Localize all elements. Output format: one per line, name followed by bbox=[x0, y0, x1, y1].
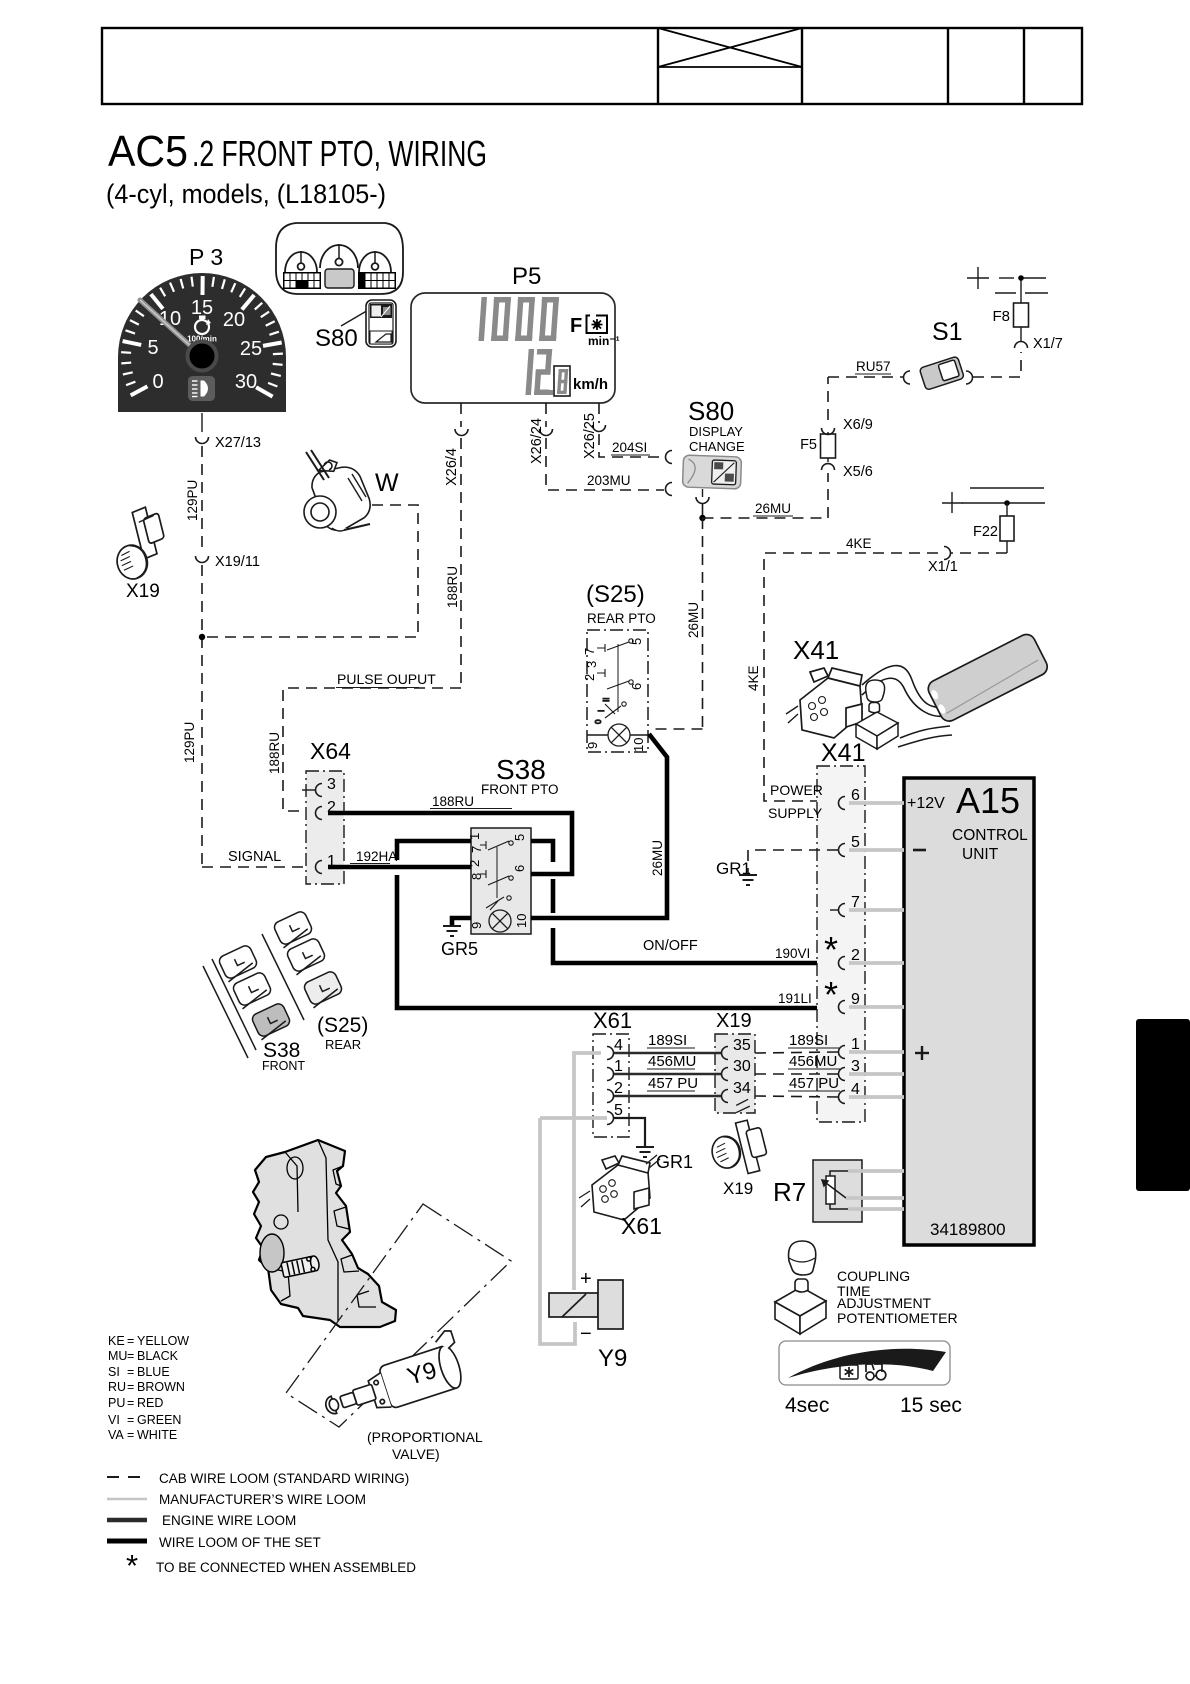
proportional valve Y9 pictorial bbox=[315, 1329, 468, 1428]
svg-text:X19: X19 bbox=[126, 581, 160, 602]
svg-text:190VI: 190VI bbox=[775, 946, 810, 961]
svg-text:5: 5 bbox=[614, 1102, 623, 1119]
wire S1 to X1/7 (cab loom) bbox=[973, 352, 1021, 377]
svg-text:30: 30 bbox=[235, 371, 257, 393]
svg-text:BROWN: BROWN bbox=[137, 1380, 185, 1394]
svg-text:GREEN: GREEN bbox=[137, 1413, 181, 1427]
wire GR1 at X61 pin5 bbox=[614, 1118, 645, 1146]
X61 pin 5 bbox=[607, 1112, 614, 1125]
wire 26MU dashed into S25 pin10 bbox=[650, 728, 703, 730]
svg-text:X19/11: X19/11 bbox=[215, 554, 260, 570]
wire W sender loop (cab loom) bbox=[202, 505, 418, 637]
svg-text:4: 4 bbox=[614, 1037, 623, 1054]
X41 pin 4 bbox=[839, 1091, 846, 1104]
connector X1/7 bbox=[1015, 342, 1028, 349]
svg-text:457 PU: 457 PU bbox=[648, 1075, 698, 1092]
svg-text:3: 3 bbox=[584, 661, 599, 668]
svg-text:456MU: 456MU bbox=[789, 1053, 837, 1070]
svg-text:189SI: 189SI bbox=[648, 1032, 687, 1049]
svg-text:P5: P5 bbox=[512, 263, 541, 290]
svg-text:4KE: 4KE bbox=[846, 536, 872, 551]
svg-text:X19: X19 bbox=[716, 1010, 752, 1032]
svg-text:30: 30 bbox=[733, 1058, 751, 1075]
wire 456MU (engine loom) bbox=[614, 1073, 722, 1076]
wire X5/6 to 26MU (cab loom) bbox=[827, 473, 829, 518]
S38 lamp bbox=[489, 910, 511, 932]
svg-text:204SI: 204SI bbox=[612, 440, 647, 455]
svg-text:4sec: 4sec bbox=[785, 1394, 829, 1417]
svg-text:X61: X61 bbox=[593, 1008, 632, 1033]
svg-text:R7: R7 bbox=[773, 1177, 806, 1207]
fuse F5 bbox=[827, 432, 829, 462]
wire 26MU vertical to S25 (cab loom) bbox=[702, 518, 704, 729]
fuse F8 bbox=[1020, 295, 1022, 341]
X41 potentiometer knob pictorial bbox=[856, 680, 898, 749]
svg-text:POTENTIOMETER: POTENTIOMETER bbox=[837, 1310, 958, 1326]
svg-text:ENGINE WIRE LOOM: ENGINE WIRE LOOM bbox=[162, 1513, 296, 1528]
wire X6/9 up to RU57 (cab loom) bbox=[827, 377, 829, 420]
connector X61 pictorial bbox=[579, 1155, 660, 1220]
svg-text:REAR PTO: REAR PTO bbox=[587, 611, 656, 626]
junction W/129PU bbox=[199, 634, 205, 640]
svg-text:WIRE LOOM OF THE SET: WIRE LOOM OF THE SET bbox=[159, 1535, 321, 1550]
sender W pictorial bbox=[304, 450, 376, 535]
X41 pin7 stub bbox=[830, 909, 838, 911]
svg-text:X1/7: X1/7 bbox=[1033, 336, 1063, 352]
svg-text:GR1: GR1 bbox=[656, 1152, 693, 1172]
control unit A15 box bbox=[904, 778, 1034, 1245]
svg-text:CHANGE: CHANGE bbox=[689, 439, 745, 454]
wire RU57 (cab loom) bbox=[828, 376, 903, 378]
svg-text:=: = bbox=[127, 1334, 134, 1348]
line type legend bbox=[107, 1471, 416, 1583]
svg-text:188RU: 188RU bbox=[267, 732, 282, 774]
connector X41 block bbox=[817, 766, 865, 1122]
svg-text:X26/4: X26/4 bbox=[444, 448, 460, 486]
X41 module (A15 pictorial) bbox=[925, 631, 1050, 724]
connector X27/13 bbox=[196, 437, 209, 444]
svg-text:7: 7 bbox=[582, 648, 597, 655]
svg-text:(S25): (S25) bbox=[317, 1014, 368, 1037]
wire 26MU (set) S25 pin10 to S38 pin10 bbox=[531, 734, 667, 918]
svg-text:P 3: P 3 bbox=[189, 244, 223, 270]
switch S80 DISPLAY CHANGE body bbox=[682, 455, 741, 489]
wire S38 pin5 stub (set) bbox=[531, 841, 553, 862]
wire Y9 - (manufacturer) bbox=[540, 1118, 575, 1344]
title block crossed cell bbox=[658, 28, 802, 67]
svg-text:A15: A15 bbox=[956, 780, 1020, 821]
svg-text:S80: S80 bbox=[315, 325, 358, 352]
svg-text:+12V: +12V bbox=[907, 795, 945, 812]
svg-text:X27/13: X27/13 bbox=[215, 435, 261, 451]
svg-text:CONTROL: CONTROL bbox=[952, 827, 1028, 844]
wire 26MU horizontal to F5 branch (cab loom) bbox=[703, 517, 829, 519]
X64 pin 2 bbox=[316, 807, 323, 820]
svg-text:188RU: 188RU bbox=[432, 794, 474, 809]
X41 pin 9 bbox=[839, 1001, 846, 1014]
wire X26/24 (cab loom) bbox=[545, 403, 547, 427]
svg-text:3: 3 bbox=[327, 776, 336, 793]
svg-text:RU57: RU57 bbox=[856, 359, 891, 374]
X41 pin 3 bbox=[839, 1068, 846, 1081]
adjustment knob pictorial bbox=[775, 1241, 826, 1334]
connector below S80 bbox=[696, 497, 709, 504]
svg-text:26MU: 26MU bbox=[650, 840, 665, 876]
rocker switch panel pictorial bbox=[203, 910, 344, 1058]
svg-text:RED: RED bbox=[137, 1396, 163, 1410]
switch S1 body bbox=[919, 356, 964, 390]
svg-text:5: 5 bbox=[147, 337, 158, 359]
connector at S1 right bbox=[966, 371, 973, 384]
svg-text:II: II bbox=[602, 698, 611, 702]
switch S80 (panel icon) bbox=[366, 300, 396, 347]
svg-text:456MU: 456MU bbox=[648, 1053, 696, 1070]
svg-text:FRONT PTO: FRONT PTO bbox=[481, 782, 559, 797]
wire X26/25 (cab loom) bbox=[598, 403, 600, 423]
connector at S1 left bbox=[904, 371, 911, 384]
svg-text:X6/9: X6/9 bbox=[843, 417, 873, 433]
title block frame bbox=[102, 28, 1082, 104]
connector X19/11 bbox=[196, 556, 209, 563]
X41 pin 1 bbox=[839, 1046, 846, 1059]
svg-text:km/h: km/h bbox=[573, 376, 608, 393]
X41 pin 7 bbox=[839, 904, 846, 917]
svg-text:AC5: AC5 bbox=[108, 127, 188, 176]
svg-text:1: 1 bbox=[614, 1058, 623, 1075]
svg-text:25: 25 bbox=[240, 338, 262, 360]
wire GR1 at X41 pin5 (cab loom) bbox=[748, 850, 838, 874]
svg-text:SI: SI bbox=[108, 1365, 120, 1379]
leader line (dash-dot diamond) bbox=[286, 1204, 511, 1427]
X41 pin 5 bbox=[839, 844, 846, 857]
svg-text:VA: VA bbox=[108, 1428, 124, 1442]
wire SIGNAL to X64 (cab loom) bbox=[202, 866, 308, 868]
svg-text:34189800: 34189800 bbox=[930, 1220, 1006, 1239]
S25 lamp bbox=[608, 724, 630, 746]
connector X6/9 bbox=[822, 428, 835, 434]
switch S38 block bbox=[471, 828, 531, 934]
X19 pin 35 bbox=[722, 1047, 728, 1060]
connector block X64 bbox=[306, 771, 344, 884]
svg-text:7: 7 bbox=[469, 846, 484, 853]
wire PULSE OUPUT (cab loom) bbox=[283, 688, 461, 811]
scale PTO icon bbox=[840, 1365, 858, 1379]
svg-text:9: 9 bbox=[469, 922, 484, 929]
connector X26/25 bbox=[593, 425, 606, 432]
S25 internal contacts bbox=[594, 639, 633, 724]
connector X19 pictorial (instrument) bbox=[702, 1098, 771, 1181]
X41 harness cable bbox=[862, 666, 950, 708]
svg-text:MANUFACTURER’S WIRE LOOM: MANUFACTURER’S WIRE LOOM bbox=[159, 1492, 366, 1507]
wire 204SI (cab loom) bbox=[599, 434, 664, 457]
switch S80 (panel icon) leader bbox=[341, 309, 370, 326]
svg-text:−: − bbox=[580, 1323, 592, 1345]
svg-text:=: = bbox=[127, 1428, 134, 1442]
wire 26MU from S80 down (cab loom) bbox=[702, 504, 704, 518]
wire from P3 to X27/13 bbox=[201, 413, 203, 432]
wire 188RU vertical (cab loom) bbox=[460, 438, 462, 688]
battery + (second) bbox=[942, 488, 1045, 513]
wire X26/4 (cab loom) bbox=[460, 403, 462, 427]
coupling time scale bbox=[779, 1341, 950, 1385]
front PTO gearbox pictorial bbox=[253, 1140, 396, 1327]
instrument cluster icon bbox=[276, 223, 403, 294]
svg-text:34: 34 bbox=[733, 1080, 751, 1097]
connector X19 pictorial (cab side) bbox=[106, 505, 173, 583]
svg-text:PU: PU bbox=[108, 1396, 125, 1410]
switch (S25) block bbox=[587, 630, 648, 752]
svg-text:X41: X41 bbox=[821, 739, 865, 767]
svg-text:188RU: 188RU bbox=[445, 566, 460, 608]
wire 129PU (cab loom) bbox=[201, 446, 203, 552]
X41 pin 6 bbox=[839, 797, 846, 810]
svg-text:457 PU: 457 PU bbox=[789, 1075, 839, 1092]
wire 457 PU X19 to X41 (cab loom) bbox=[755, 1096, 838, 1097]
svg-text:=: = bbox=[127, 1413, 134, 1427]
svg-text:X26/25: X26/25 bbox=[582, 413, 598, 459]
svg-text:X61: X61 bbox=[621, 1213, 662, 1239]
svg-text:W: W bbox=[375, 469, 399, 497]
svg-text:192HA: 192HA bbox=[356, 849, 397, 864]
svg-text:S80: S80 bbox=[688, 396, 734, 426]
svg-text:RU: RU bbox=[108, 1380, 126, 1394]
svg-text:WHITE: WHITE bbox=[137, 1428, 177, 1442]
svg-text:5: 5 bbox=[512, 834, 527, 841]
svg-text:FRONT: FRONT bbox=[262, 1059, 305, 1073]
X41 pin 2 bbox=[839, 957, 846, 970]
svg-text:S1: S1 bbox=[932, 318, 963, 346]
wire 4KE (cab loom) bbox=[951, 552, 1007, 554]
display P5 bbox=[411, 293, 615, 403]
svg-text:191LI: 191LI bbox=[778, 991, 812, 1006]
svg-text:35: 35 bbox=[733, 1037, 751, 1054]
connector X1/1 bbox=[944, 547, 951, 560]
wire to X61 pin5 (manufacturer) bbox=[540, 1116, 607, 1120]
svg-text:F8: F8 bbox=[992, 308, 1010, 325]
wire Y9 + (manufacturer) bbox=[574, 1053, 601, 1290]
svg-text:(PROPORTIONAL: (PROPORTIONAL bbox=[367, 1429, 483, 1445]
svg-text:F: F bbox=[570, 315, 582, 337]
svg-text:DISPLAY: DISPLAY bbox=[689, 424, 743, 439]
svg-text:POWER: POWER bbox=[770, 782, 823, 798]
svg-text:ON/OFF: ON/OFF bbox=[643, 938, 698, 954]
svg-text:X26/24: X26/24 bbox=[529, 418, 545, 464]
svg-text:2: 2 bbox=[614, 1080, 623, 1097]
svg-text:4KE: 4KE bbox=[746, 665, 761, 691]
svg-text:ADJUSTMENT: ADJUSTMENT bbox=[837, 1295, 932, 1311]
svg-text:(S25): (S25) bbox=[586, 581, 645, 608]
svg-text:0: 0 bbox=[152, 371, 163, 393]
svg-text:2: 2 bbox=[582, 674, 597, 681]
wire 192HA (set) X64 pin1 to S38 pin2 bbox=[328, 865, 471, 870]
svg-text:X5/6: X5/6 bbox=[843, 464, 873, 480]
connector block X19 bbox=[715, 1034, 755, 1113]
connector X41 pictorial bbox=[786, 668, 862, 738]
svg-text:TO BE CONNECTED WHEN ASSEMBLE: TO BE CONNECTED WHEN ASSEMBLED bbox=[156, 1560, 416, 1575]
wire 203MU (cab loom) bbox=[546, 438, 664, 490]
svg-text:9: 9 bbox=[585, 742, 600, 749]
svg-text:KE: KE bbox=[108, 1334, 125, 1348]
svg-text:=: = bbox=[127, 1380, 134, 1394]
svg-text:X19: X19 bbox=[723, 1179, 753, 1198]
svg-text:6: 6 bbox=[512, 865, 527, 872]
svg-text:26MU: 26MU bbox=[755, 501, 791, 516]
svg-text:SUPPLY: SUPPLY bbox=[768, 805, 823, 821]
S38 internal contacts bbox=[480, 841, 513, 910]
colour legend bbox=[108, 1334, 189, 1442]
wire 457 PU (engine loom) bbox=[614, 1095, 722, 1098]
wire 129PU lower (cab loom) bbox=[201, 565, 203, 867]
wire 189SI X19 to X41 (cab loom) bbox=[755, 1052, 838, 1053]
svg-text:YELLOW: YELLOW bbox=[137, 1334, 189, 1348]
svg-text:=: = bbox=[127, 1349, 134, 1363]
ground GR5 at S38 pin9 bbox=[452, 918, 471, 925]
scale tractor icon bbox=[866, 1364, 886, 1380]
wire 456MU X19 to X41 (cab loom) bbox=[755, 1073, 838, 1075]
svg-text:MU: MU bbox=[108, 1349, 127, 1363]
svg-text:*: * bbox=[126, 1548, 138, 1583]
svg-text:X1/1: X1/1 bbox=[928, 559, 958, 575]
connector at S80 lower (203MU) bbox=[666, 483, 672, 496]
svg-text:20: 20 bbox=[223, 309, 245, 331]
battery + (top) bbox=[967, 267, 1048, 295]
connector block X61 bbox=[593, 1034, 629, 1137]
svg-text:10: 10 bbox=[514, 914, 529, 928]
reference tab bbox=[1136, 1019, 1190, 1191]
svg-text:I: I bbox=[597, 710, 606, 712]
svg-text:VALVE): VALVE) bbox=[392, 1446, 440, 1462]
svg-text:+: + bbox=[580, 1268, 592, 1290]
connector at S80 upper (204SI) bbox=[666, 451, 672, 464]
connector X26/4 bbox=[455, 429, 468, 436]
X19 pin 34 bbox=[722, 1090, 728, 1103]
X61 pin 1 bbox=[607, 1068, 614, 1081]
junction S80/26MU bbox=[699, 515, 705, 521]
svg-text:SIGNAL: SIGNAL bbox=[228, 849, 281, 865]
svg-text:189SI: 189SI bbox=[789, 1032, 828, 1049]
svg-text:BLACK: BLACK bbox=[137, 1349, 179, 1363]
svg-text:10: 10 bbox=[631, 738, 646, 752]
svg-text:F22: F22 bbox=[973, 524, 998, 540]
svg-text:S38: S38 bbox=[496, 754, 546, 785]
svg-text:*: * bbox=[824, 974, 838, 1015]
svg-text:15 sec: 15 sec bbox=[900, 1394, 962, 1417]
svg-text:UNIT: UNIT bbox=[962, 846, 999, 863]
svg-text:(4-cyl, models, (L18105-): (4-cyl, models, (L18105-) bbox=[106, 179, 386, 209]
svg-text:129PU: 129PU bbox=[185, 480, 200, 521]
svg-text:.2 FRONT PTO, WIRING: .2 FRONT PTO, WIRING bbox=[192, 133, 487, 174]
display P5 gear icon bbox=[587, 316, 608, 334]
R7 wires (manufacturer) bbox=[848, 1169, 904, 1173]
svg-text:203MU: 203MU bbox=[587, 473, 631, 488]
wire 191LI (set) S38 pin1 to A15 X41 pin9 bbox=[397, 841, 471, 860]
svg-text:=: = bbox=[127, 1396, 134, 1410]
X64 pin 1 bbox=[316, 861, 323, 874]
X61 pin 4 bbox=[607, 1047, 614, 1060]
svg-text:GR1: GR1 bbox=[716, 859, 751, 878]
potentiometer R7 bbox=[813, 1160, 862, 1222]
svg-text:129PU: 129PU bbox=[182, 722, 197, 763]
X19 pin 30 bbox=[722, 1068, 728, 1081]
svg-text:0: 0 bbox=[594, 719, 603, 724]
svg-text:X41: X41 bbox=[793, 635, 839, 665]
svg-text:F5: F5 bbox=[800, 437, 817, 453]
fuse F22 bbox=[1006, 503, 1008, 553]
svg-text:REAR: REAR bbox=[325, 1037, 361, 1052]
svg-text:Y9: Y9 bbox=[598, 1345, 627, 1372]
svg-text:GR5: GR5 bbox=[441, 939, 478, 959]
tachometer P3 bbox=[118, 273, 286, 412]
svg-text:PULSE OUPUT: PULSE OUPUT bbox=[337, 671, 436, 687]
wire 189SI (engine loom) bbox=[614, 1052, 722, 1055]
svg-text:=: = bbox=[127, 1365, 134, 1379]
wire 188RU (set) X64 pin2 to S38 pin6 bbox=[328, 813, 572, 874]
X61 pin 2 bbox=[607, 1090, 614, 1103]
svg-text:min⁻¹: min⁻¹ bbox=[588, 334, 620, 348]
svg-text:CAB WIRE LOOM (STANDARD WIRIN: CAB WIRE LOOM (STANDARD WIRING) bbox=[159, 1471, 409, 1486]
wire 190VI (set) dashes to A15 X41 pin2 bbox=[551, 879, 556, 913]
svg-text:*: * bbox=[824, 929, 838, 970]
connector X5/6 bbox=[822, 464, 835, 470]
svg-text:26MU: 26MU bbox=[686, 602, 701, 638]
svg-text:X64: X64 bbox=[310, 738, 351, 764]
svg-text:BLUE: BLUE bbox=[137, 1365, 170, 1379]
svg-text:COUPLING: COUPLING bbox=[837, 1268, 910, 1284]
connector X26/24 bbox=[540, 429, 553, 436]
svg-text:VI: VI bbox=[108, 1413, 120, 1427]
X64 pin 3 bbox=[302, 789, 315, 791]
